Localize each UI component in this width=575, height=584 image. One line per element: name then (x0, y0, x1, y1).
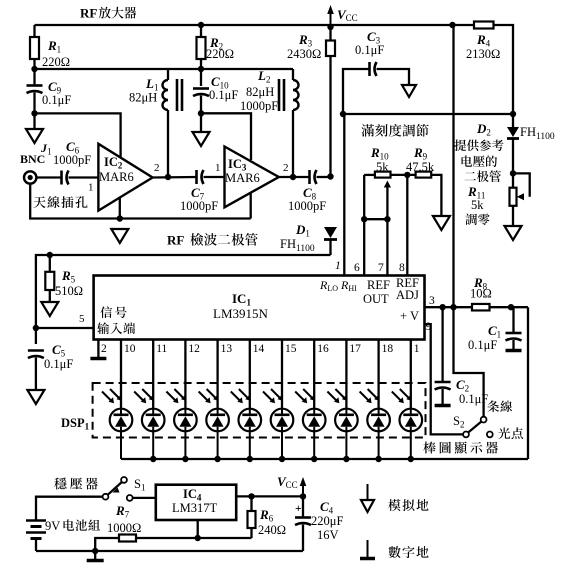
svg-text:OUT: OUT (363, 292, 389, 306)
wire detector output line (36, 255, 331, 344)
svg-text:82μH: 82μH (129, 91, 157, 105)
svg-text:REF: REF (367, 278, 390, 292)
label bar display 棒图显示器 (423, 441, 435, 453)
svg-text:MAR6: MAR6 (225, 171, 260, 185)
svg-text:17: 17 (349, 343, 361, 355)
svg-text:10Ω: 10Ω (470, 287, 492, 301)
node R2 bottom (198, 66, 204, 72)
svg-text:5: 5 (79, 313, 85, 325)
svg-text:82μH: 82μH (246, 85, 274, 99)
LED 2 (142, 409, 165, 432)
switch S1 (103, 494, 109, 500)
svg-text:BNC: BNC (20, 152, 45, 166)
wire LED pin 10 (120, 340, 122, 410)
wire pin 5 (36, 327, 94, 329)
svg-text:240Ω: 240Ω (258, 523, 286, 537)
power Vcc arrow bottom (302, 484, 304, 496)
node IC3 out (290, 174, 296, 180)
svg-text:2430Ω: 2430Ω (287, 47, 321, 61)
svg-text:+: + (295, 503, 302, 515)
node Vcc (327, 24, 333, 30)
node D2 cathode (510, 170, 516, 176)
LED 7 (303, 409, 326, 432)
capacitor C2 (441, 307, 443, 382)
svg-text:1: 1 (88, 182, 94, 194)
svg-text:16: 16 (317, 343, 329, 355)
svg-text:15: 15 (285, 343, 297, 355)
wire IC3 out (279, 176, 310, 178)
node C8 right (327, 173, 333, 179)
inductor L1 82uH (167, 69, 169, 80)
ground below C10 (193, 132, 210, 146)
ground below C5 (27, 390, 44, 404)
connector J1 BNC (24, 171, 36, 183)
power Vcc arrow (330, 12, 332, 25)
wire BNC ground return (30, 184, 251, 219)
wire LED pin 16 (313, 340, 315, 410)
node C9 bottom (31, 110, 37, 116)
label full-scale adjust 满刻度调节 (361, 124, 374, 136)
wire rail B C9 to IC2 gnd (35, 113, 121, 160)
svg-text:7: 7 (378, 262, 384, 274)
LED 6 (271, 409, 294, 432)
wire reference rail (343, 113, 513, 115)
legend digital ground 数字地 (367, 540, 369, 557)
node R9 left pin8 (404, 172, 410, 178)
node R5 top (47, 252, 53, 258)
node ADJ (195, 535, 201, 541)
svg-text:+ V: + V (400, 309, 419, 323)
wire LED anode rail (121, 458, 528, 460)
svg-text:RF: RF (167, 233, 184, 248)
op-amp IC3 MAR6 (225, 147, 279, 208)
node R4 left (449, 22, 455, 28)
node C10 bottom (198, 110, 204, 116)
ground battery rail (94, 551, 96, 559)
potentiometer R10 5k (364, 174, 375, 176)
wire Vcc drop to +V (452, 25, 454, 307)
wire right border anode rail riser (527, 307, 529, 459)
label antenna jack 天线插孔 (33, 196, 45, 208)
capacitor C3 (343, 69, 370, 114)
IC4 LM317T box (156, 485, 236, 520)
wire LED pin 13 (216, 340, 218, 410)
resistor R6 240 ohm (250, 496, 252, 538)
LED 9 (367, 409, 390, 432)
resistor R4 (474, 22, 494, 29)
resistor R9 47.5k (391, 174, 416, 176)
resistor R2 (200, 25, 202, 86)
svg-text:1: 1 (215, 162, 221, 174)
svg-text:11: 11 (156, 343, 167, 355)
label regulator 稳压器 (54, 477, 66, 489)
svg-text:510Ω: 510Ω (55, 284, 83, 298)
svg-text:220μF: 220μF (311, 514, 343, 528)
inductor L2 82uH 1000pF (292, 69, 294, 80)
node ground rail (92, 548, 98, 554)
svg-text:47.5k: 47.5k (406, 160, 435, 174)
resistor R3 (329, 27, 331, 177)
ground below R11 (505, 226, 522, 240)
capacitor C7 (195, 170, 198, 184)
op-amp IC2 MAR6 (98, 144, 152, 211)
svg-text:16V: 16V (317, 528, 339, 542)
battery 9V (36, 497, 106, 521)
svg-text:12: 12 (188, 343, 200, 355)
LED 4 (206, 409, 229, 432)
svg-text:8: 8 (399, 262, 405, 274)
svg-text:LM3915N: LM3915N (213, 306, 269, 321)
wire top Vcc rail (35, 25, 514, 114)
wire IC4 out (236, 495, 303, 497)
wire LED pin 11 (152, 340, 154, 410)
svg-text:MAR6: MAR6 (99, 170, 134, 184)
LED 8 (335, 409, 358, 432)
svg-text:2: 2 (154, 162, 160, 174)
svg-text:5k: 5k (376, 160, 389, 174)
wire R10 wiper crossbar (364, 218, 387, 220)
svg-text:0.1μF: 0.1μF (468, 338, 497, 352)
wire LED pin 14 (249, 340, 251, 410)
switch S2 (463, 432, 469, 438)
DSP1 dashed box (93, 383, 426, 438)
svg-text:1000pF: 1000pF (288, 199, 326, 213)
label 提供参考电压的二极管 (454, 140, 466, 152)
wire LED pin 1 (410, 340, 412, 410)
legend analog ground 模拟地 (367, 484, 369, 500)
node R1 bottom (31, 66, 37, 72)
svg-text:5k: 5k (471, 198, 484, 212)
ground below C3 (402, 85, 416, 97)
wire C10 to IC3 gnd (201, 113, 251, 160)
wire ADJ line (95, 538, 251, 551)
svg-text:1000pF: 1000pF (240, 99, 278, 113)
capacitor C4 220uF (302, 496, 304, 517)
wire bottom ground rail (36, 550, 303, 552)
svg-text:14: 14 (253, 343, 265, 355)
node pin5 tee (33, 325, 39, 331)
potentiometer R11 5k (510, 188, 517, 206)
svg-text:3: 3 (429, 295, 435, 307)
capacitor C1 (512, 307, 514, 333)
resistor R8 10 ohm (472, 304, 490, 311)
svg-text:1000pF: 1000pF (53, 153, 91, 167)
ground below IC2 (111, 229, 128, 243)
capacitor C9 (27, 84, 43, 87)
ground below C9 (26, 129, 43, 143)
wire pin9 (425, 324, 464, 434)
LED 5 (239, 409, 262, 432)
LED 3 (174, 409, 197, 432)
wire LED pin 12 (184, 340, 186, 410)
svg-text:18: 18 (382, 343, 394, 355)
svg-text:LM317T: LM317T (172, 501, 218, 515)
svg-text:1: 1 (335, 260, 341, 272)
ground below R9 (433, 216, 450, 230)
svg-text:10: 10 (124, 343, 136, 355)
svg-text:2: 2 (283, 162, 289, 174)
wire S1 to IC4 (133, 497, 156, 499)
svg-text:220Ω: 220Ω (206, 47, 234, 61)
LED 1 (110, 409, 133, 432)
svg-text:1000Ω: 1000Ω (107, 521, 141, 535)
wire IC2 out (153, 176, 197, 179)
svg-text:2: 2 (101, 343, 107, 355)
svg-text:9V: 9V (45, 519, 60, 533)
wire pin3 +V line (425, 306, 529, 308)
svg-text:9: 9 (426, 321, 432, 333)
node IC2 ground (117, 215, 123, 221)
svg-text:0.1μF: 0.1μF (44, 357, 73, 371)
ground below R5 (41, 302, 58, 316)
capacitor C5 (28, 349, 44, 352)
svg-text:6: 6 (354, 262, 360, 274)
wire pin1 (343, 114, 345, 276)
wire LED pin 17 (345, 340, 347, 410)
svg-text:0.1μF: 0.1μF (42, 93, 71, 107)
resistor R7 1000 ohm (119, 535, 136, 542)
wire rail A (R1/R2 bottom to L2) (35, 68, 294, 70)
node IC2 out (165, 174, 171, 180)
svg-text:RF: RF (80, 6, 97, 21)
svg-text:1: 1 (414, 343, 420, 355)
svg-text:13: 13 (221, 343, 233, 355)
svg-text:0.1μF: 0.1μF (209, 88, 238, 102)
capacitor C8 (308, 170, 311, 184)
diode D1 FH1100 (324, 227, 337, 238)
svg-text:1000pF: 1000pF (180, 199, 218, 213)
wire bar-mode (454, 307, 484, 417)
node R2 top (198, 22, 204, 28)
capacitor C6 (36, 176, 61, 178)
resistor R1 (33, 25, 35, 85)
LED 10 (400, 409, 423, 432)
IC1 bottom pin2 + ground (97, 340, 99, 358)
IC1 LM3915N box (94, 276, 425, 340)
wire LED pin 18 (377, 340, 379, 410)
svg-text:220Ω: 220Ω (42, 55, 70, 69)
svg-text:0.1μF: 0.1μF (355, 43, 384, 57)
svg-text:ADJ: ADJ (396, 288, 419, 302)
svg-text:2130Ω: 2130Ω (466, 47, 500, 61)
capacitor C10 (193, 87, 209, 90)
wire LED pin 15 (281, 340, 283, 410)
resistor R5 (49, 255, 51, 302)
diode D2 FH1100 (512, 114, 514, 127)
